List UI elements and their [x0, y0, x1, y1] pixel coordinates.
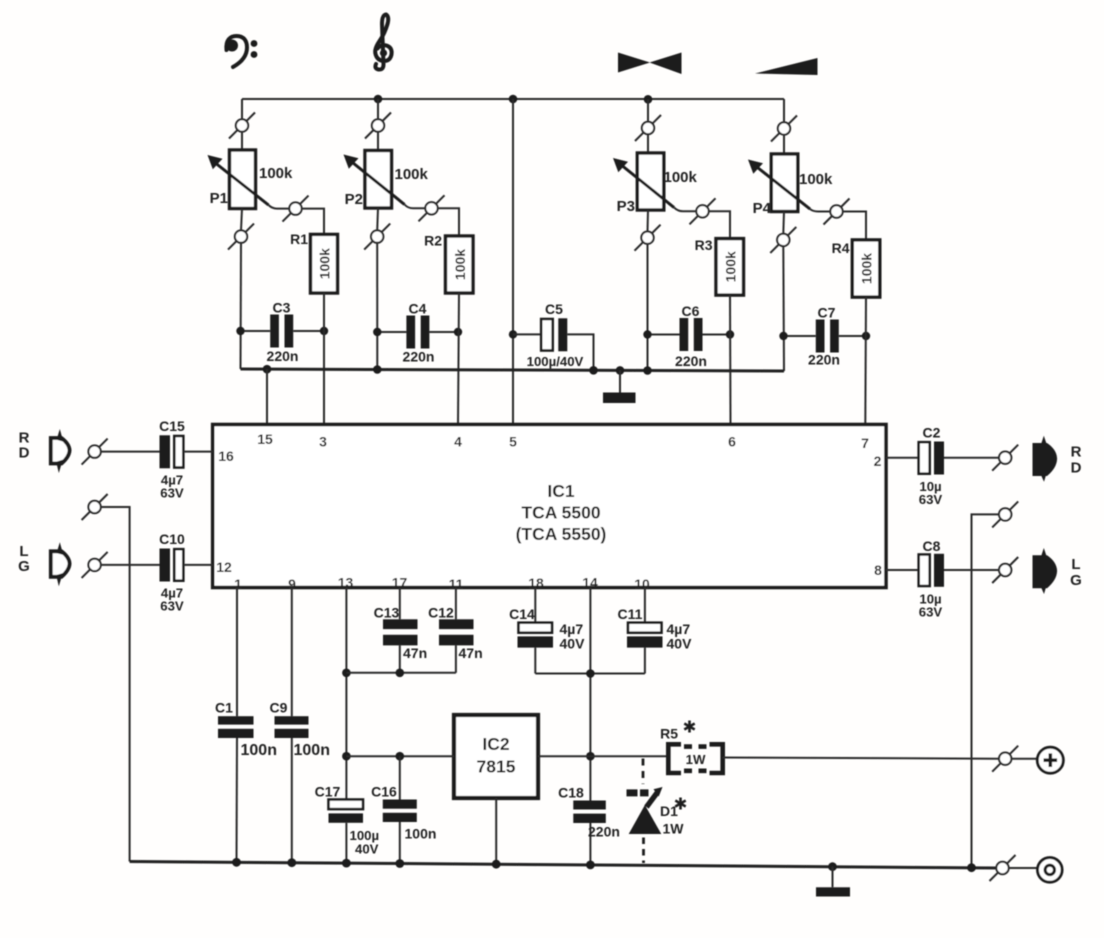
svg-text:10: 10 — [634, 576, 650, 592]
capacitor C2 (10u electrolytic) — [919, 442, 1000, 475]
wire: C14/C11 bus — [535, 673, 645, 675]
wire: IC pin 1 down through C1 to ground rail — [236, 588, 238, 717]
svg-text:100k: 100k — [452, 249, 468, 280]
wire: IC pin 8 to C8 — [886, 569, 919, 571]
svg-text:220n: 220n — [403, 349, 435, 365]
connector L/G input — [82, 552, 108, 578]
wire: IC pin 18 to C14 — [534, 588, 536, 623]
svg-text:C15: C15 — [159, 418, 185, 434]
capacitor C4 — [373, 316, 462, 349]
svg-text:7: 7 — [861, 435, 869, 451]
potentiometer P4 body — [771, 154, 798, 212]
wire: rail to P3 connector — [647, 99, 649, 122]
svg-text:40V: 40V — [355, 842, 379, 857]
wire: input connector to C15 — [101, 451, 160, 453]
wire: rail to P1 top — [241, 99, 243, 120]
junction IC2 ground at rail — [492, 860, 501, 869]
svg-text:3: 3 — [319, 434, 327, 450]
wire: IC pin 2 to C2 — [886, 457, 919, 459]
svg-text:C11: C11 — [618, 606, 643, 622]
svg-text:16: 16 — [218, 448, 234, 464]
wire: P2 column down to ground rail — [376, 243, 378, 370]
capacitor C11 (4u7/40V electrolytic) — [627, 623, 663, 674]
resistor R1 — [311, 234, 338, 293]
connector P1 top — [229, 113, 255, 139]
junction C17 at rail — [342, 859, 351, 868]
connector P3 wiper — [690, 198, 716, 224]
svg-text:2: 2 — [874, 453, 882, 469]
wire: P4 bottom to connector — [782, 212, 785, 234]
junction pin13 at 47n bus — [342, 669, 351, 678]
wire: connector to + circle — [1011, 758, 1037, 760]
capacitor C6 — [643, 318, 734, 351]
connector + terminal — [992, 746, 1018, 772]
connector L/G output — [992, 557, 1018, 583]
output plug symbol L/G (filled) — [1034, 548, 1056, 594]
resistor R2 — [446, 236, 474, 293]
wire: rail corner to P4 connector — [783, 99, 785, 123]
diode D1 slanted stroke — [647, 792, 659, 808]
svg-text:220n: 220n — [808, 352, 840, 368]
wire: wiper connector to R1 top — [302, 209, 325, 235]
junction C18 at rail — [586, 861, 595, 870]
potentiometer P3 arrow — [623, 166, 675, 208]
svg-text:C8: C8 — [923, 538, 941, 554]
wire: top supply rail — [242, 98, 784, 100]
svg-text:12: 12 — [216, 559, 232, 575]
junction: rail to pin15 — [263, 365, 272, 374]
svg-text:C4: C4 — [409, 301, 427, 317]
wire: connector to 0 circle — [1009, 867, 1038, 869]
svg-text:1: 1 — [234, 576, 242, 592]
bass clef symbol (tone control bass) — [226, 36, 257, 67]
capacitor C17 (100u/40V electrolytic) — [329, 800, 364, 864]
wire: rail down to IC pin 15 — [266, 369, 268, 424]
wire: P1 bottom to connector — [241, 209, 242, 231]
balance symbol (bow-tie) — [618, 53, 682, 75]
wire: ground rail of tone section — [241, 369, 785, 371]
capacitor C8 (10u electrolytic) — [919, 554, 1000, 587]
wire: left return connector down to bottom ground rail — [101, 507, 130, 862]
junction right return at rail — [967, 863, 976, 872]
wire: P4 column down to ground rail end — [782, 246, 785, 371]
treble clef symbol (tone control treble) — [375, 15, 391, 70]
svg-text:D: D — [19, 445, 30, 462]
wire: IC pin 10 to C11 — [644, 588, 646, 623]
junction on rail at pin5 line — [509, 95, 518, 104]
wire: P3 wiper — [674, 208, 697, 212]
svg-text:6: 6 — [728, 434, 736, 450]
connector P1 bottom — [228, 224, 254, 250]
asterisk (R5) — [684, 721, 694, 733]
wire: wiper connector to R3 top — [709, 211, 731, 238]
svg-text:220n: 220n — [675, 353, 707, 369]
wire: IC2 input from pin13 column — [346, 755, 454, 757]
junction pin13 at IC2 input wire — [342, 752, 351, 761]
svg-text:47n: 47n — [403, 645, 427, 661]
capacitor C12 — [439, 619, 474, 673]
resistor R3 — [716, 239, 744, 296]
potentiometer P3 body — [637, 153, 664, 210]
wire: IC pin 13 long column — [345, 588, 347, 800]
junction: C5 at rail — [589, 366, 598, 375]
wire: IC pin 14 supply column — [589, 588, 591, 801]
svg-text:100n: 100n — [241, 742, 277, 759]
svg-text:63V: 63V — [919, 605, 943, 620]
capacitor C9 — [275, 716, 309, 862]
wire: P3 bottom to connector — [647, 210, 650, 232]
potentiometer P3 column — [635, 115, 661, 141]
junction: P3 at rail — [643, 366, 652, 375]
svg-text:R3: R3 — [695, 237, 713, 253]
connector P4 bottom — [770, 227, 796, 253]
svg-text:40V: 40V — [560, 636, 586, 652]
svg-text:100k: 100k — [395, 166, 429, 183]
svg-text:40V: 40V — [667, 636, 693, 652]
svg-text:G: G — [18, 558, 30, 575]
connector left return (feedback tap) — [82, 494, 108, 520]
junction C16 at IC2 input — [396, 752, 405, 761]
wire: connector to P1 — [241, 132, 243, 151]
junction on rail at P3 — [644, 95, 653, 104]
wire: P2 bottom to connector — [376, 208, 379, 231]
wire: connector to P4 — [783, 135, 785, 155]
capacitor C5 (100u/40V electrolytic) — [509, 318, 594, 370]
junction on rail at P2 — [374, 95, 383, 104]
svg-text:100k: 100k — [317, 248, 333, 279]
svg-text:100k: 100k — [723, 251, 739, 282]
svg-text:P2: P2 — [345, 191, 363, 208]
svg-text:100k: 100k — [799, 171, 833, 188]
svg-text:100µ/40V: 100µ/40V — [527, 354, 584, 369]
svg-text:C13: C13 — [374, 605, 400, 621]
svg-text:P1: P1 — [210, 190, 228, 207]
terminal + (supply) — [1037, 747, 1063, 773]
op-amp IC1 TCA5500 body — [213, 425, 886, 588]
capacitor C15 (4u7 electrolytic) — [160, 435, 213, 468]
svg-text:1W: 1W — [663, 821, 685, 837]
diode D1 dashed cathode bar — [627, 789, 638, 796]
svg-text:1W: 1W — [686, 752, 706, 767]
connector 0 terminal — [990, 855, 1016, 881]
wire: right return connector down to ground rail — [972, 514, 1000, 866]
potentiometer P1 arrow — [216, 164, 269, 206]
svg-text:C16: C16 — [371, 784, 397, 800]
junction pin14 at IC2 output — [586, 752, 595, 761]
svg-text:C6: C6 — [682, 303, 700, 319]
svg-text:R1: R1 — [290, 231, 308, 247]
ground symbol (tone section) — [603, 370, 636, 403]
wire: R4/C7 down to IC pin 7 — [864, 297, 867, 424]
wire: wiper connector to R4 top — [843, 212, 867, 240]
wire: IC pin 9 down through C9 to ground rail — [291, 588, 293, 717]
svg-text:C17: C17 — [315, 784, 341, 800]
svg-text:C3: C3 — [273, 300, 291, 316]
wire: IC pin 17 to C13 — [399, 588, 401, 620]
resistor R4 — [852, 240, 880, 297]
svg-text:P3: P3 — [617, 198, 635, 215]
capacitor C7 — [779, 320, 870, 353]
capacitor C13 — [383, 619, 418, 673]
wire: P3 column down to ground rail — [647, 244, 649, 371]
junction C13 at bus — [396, 669, 405, 678]
potentiometer P2 body — [365, 151, 392, 209]
svg-text:47n: 47n — [459, 645, 483, 661]
connector R/D input — [82, 439, 108, 465]
svg-text:R5: R5 — [660, 726, 678, 742]
svg-text:R: R — [1071, 444, 1082, 461]
potentiometer P4 arrow — [758, 168, 811, 210]
potentiometer P1 body — [230, 150, 256, 209]
svg-text:100k: 100k — [664, 169, 698, 186]
input plug symbol L/G — [51, 542, 70, 586]
junction: ground stem at rail — [616, 366, 625, 375]
wire: IC2 ground pin to rail — [495, 798, 497, 864]
svg-text:C1: C1 — [215, 700, 233, 716]
connector P1 wiper — [283, 196, 309, 222]
capacitor C18 — [573, 801, 606, 865]
capacitor C10 (4u7 electrolytic) — [160, 549, 213, 582]
svg-text:C12: C12 — [428, 605, 454, 621]
svg-text:C18: C18 — [558, 785, 584, 801]
capacitor C14 (4u7/40V electrolytic) — [518, 623, 554, 674]
wire: C16 drop — [399, 756, 401, 799]
capacitor C16 — [383, 800, 417, 864]
svg-text:4: 4 — [454, 434, 462, 450]
junction ground symbol at rail — [828, 862, 837, 871]
voltage regulator IC2 7815 body — [454, 715, 538, 798]
junction C1 at rail — [232, 858, 241, 867]
capacitor C3 — [236, 315, 328, 348]
connector P2 wiper — [419, 195, 445, 221]
potentiometer P2 column — [365, 113, 391, 139]
resistor R5 (optional, dashed with brackets) — [668, 744, 722, 773]
diode D1 (optional) dashed anode wire — [642, 759, 645, 785]
svg-text:100k: 100k — [859, 253, 875, 284]
diode D1 dashed bottom wire — [642, 838, 645, 864]
ground symbol (bottom) — [816, 867, 850, 897]
svg-text:220n: 220n — [267, 348, 299, 364]
potentiometer P2 arrow — [353, 163, 405, 205]
wire: R5 to + terminal — [723, 758, 1000, 759]
svg-text:L: L — [1071, 556, 1080, 573]
wire: IC2 output to R5 — [538, 755, 668, 757]
svg-text:C7: C7 — [818, 305, 836, 321]
junction: P2 at rail — [373, 365, 382, 374]
connector R/D output — [992, 445, 1018, 471]
wire: rail to P2 connector — [377, 99, 379, 120]
svg-text:8: 8 — [874, 562, 882, 578]
svg-text:C14: C14 — [509, 606, 535, 622]
svg-text:C5: C5 — [545, 301, 563, 317]
svg-text:15: 15 — [257, 431, 273, 447]
svg-text:TCA 5500: TCA 5500 — [521, 503, 600, 523]
capacitor C1 — [218, 716, 254, 862]
output plug symbol R/D (filled) — [1034, 436, 1056, 482]
volume symbol (crescendo wedge) — [755, 58, 818, 75]
junction C16 at rail — [395, 859, 404, 868]
connector P3 bottom — [635, 225, 661, 251]
svg-text:C2: C2 — [923, 425, 941, 441]
svg-text:5: 5 — [509, 434, 517, 450]
svg-text:IC1: IC1 — [547, 481, 575, 501]
connector P2 bottom — [364, 224, 390, 250]
svg-text:100n: 100n — [294, 742, 330, 759]
wire: P2 wiper — [405, 205, 426, 209]
svg-text:(TCA 5550): (TCA 5550) — [516, 524, 607, 544]
junction pin14 at C14/C11 bus — [586, 669, 595, 678]
potentiometer P4 column — [771, 116, 797, 142]
svg-text:IC2: IC2 — [482, 734, 510, 754]
wire: 47n bus — [346, 672, 456, 674]
wire: connector to P2 — [377, 132, 379, 151]
svg-text:C9: C9 — [270, 700, 288, 716]
wire: wiper connector to R2 top — [438, 208, 460, 236]
svg-text:P4: P4 — [753, 200, 772, 217]
svg-text:D: D — [1071, 460, 1082, 477]
wire: R1/C3 down to IC pin 3 — [323, 293, 325, 425]
svg-text:220n: 220n — [588, 824, 620, 840]
input plug symbol R/D — [51, 429, 70, 473]
wire: P1 column down to ground rail — [240, 243, 243, 369]
svg-text:G: G — [1070, 572, 1082, 589]
svg-text:C10: C10 — [159, 531, 185, 547]
wire: R2/C4 down to IC pin 4 — [458, 293, 459, 425]
wire: P1 wiper to R1 — [269, 205, 290, 209]
wire: rail junction down to C5 and IC pin 5 — [512, 99, 514, 425]
asterisk (D1) — [675, 798, 685, 810]
svg-text:63V: 63V — [919, 492, 943, 507]
svg-text:7815: 7815 — [477, 757, 516, 777]
connector right return — [992, 501, 1018, 527]
svg-text:R2: R2 — [424, 233, 442, 249]
wire: connector to P3 — [647, 134, 649, 153]
svg-text:63V: 63V — [160, 486, 184, 501]
wire: input connector to C10 — [101, 564, 160, 566]
connector P4 wiper — [824, 199, 850, 225]
wire: IC pin 11 to C12 — [455, 588, 457, 620]
junction C9 at rail — [287, 858, 296, 867]
wire: R3/C6 down to IC pin 6 — [729, 295, 732, 424]
terminal 0 (ground) — [1038, 858, 1063, 883]
diode D1 triangle — [629, 805, 662, 834]
wire: bottom ground rail — [130, 862, 997, 869]
svg-text:100n: 100n — [405, 826, 437, 842]
svg-text:63V: 63V — [160, 599, 184, 614]
svg-text:R4: R4 — [832, 240, 850, 256]
svg-text:100k: 100k — [259, 165, 293, 182]
wire: P4 wiper — [810, 209, 831, 212]
